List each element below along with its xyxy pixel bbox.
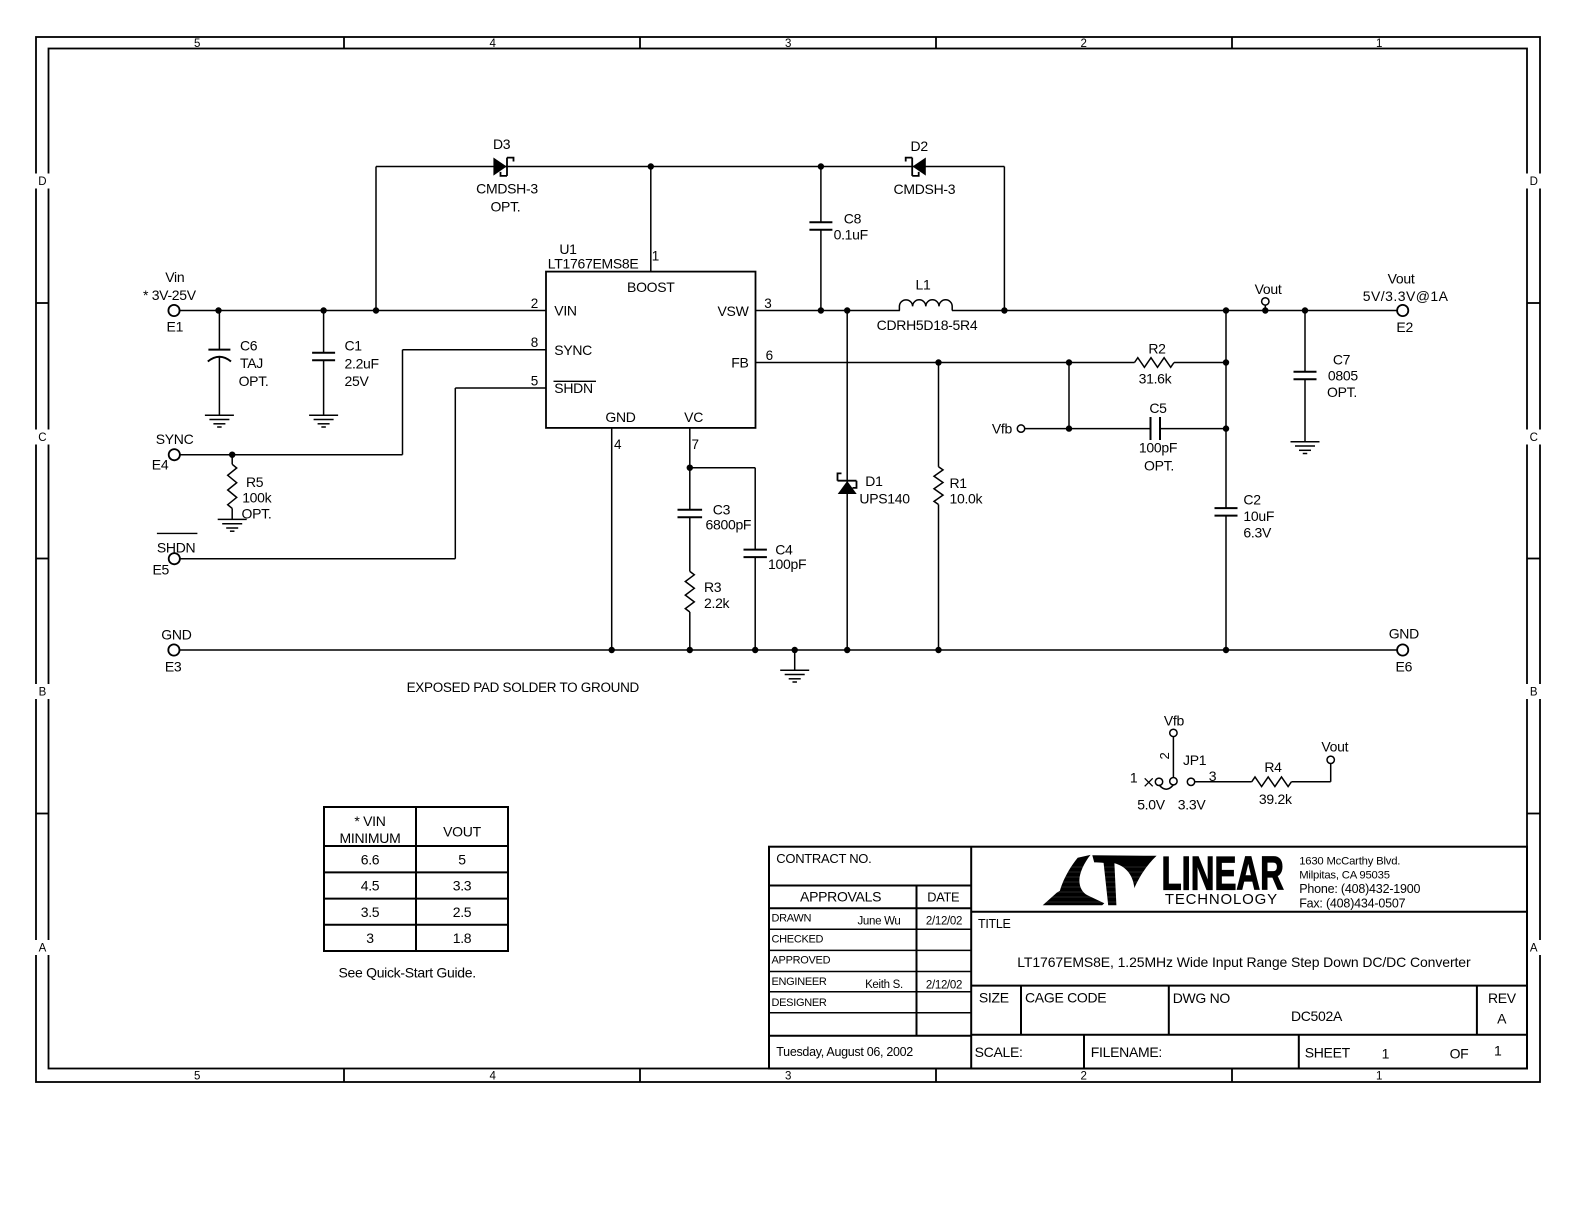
inductor L1 CDRH5D18-5R4 (877, 277, 978, 334)
svg-text:0.1uF: 0.1uF (834, 227, 868, 243)
svg-text:1: 1 (1494, 1043, 1502, 1059)
wire SYNC net E4 to U1 pin 8 (180, 350, 547, 455)
svg-text:APPROVED: APPROVED (772, 955, 831, 967)
svg-text:SHDN: SHDN (157, 540, 195, 556)
svg-text:C1: C1 (345, 338, 363, 354)
ground under C6 (205, 414, 234, 416)
svg-text:Fax: (408)434-0507: Fax: (408)434-0507 (1299, 897, 1405, 911)
junction dots VSW rail (818, 307, 1309, 313)
svg-text:2: 2 (531, 296, 538, 311)
svg-text:A: A (1530, 943, 1538, 955)
svg-text:Milpitas, CA 95035: Milpitas, CA 95035 (1299, 870, 1390, 882)
svg-text:5V/3.3V@1A: 5V/3.3V@1A (1363, 288, 1449, 304)
svg-text:4: 4 (614, 437, 622, 452)
svg-text:Vfb: Vfb (1164, 712, 1185, 728)
junction dots BOOST rail (648, 163, 825, 169)
svg-text:Vfb: Vfb (992, 421, 1013, 437)
svg-text:3.5: 3.5 (361, 904, 380, 920)
svg-text:CAGE CODE: CAGE CODE (1025, 989, 1106, 1005)
terminal E2 Vout (1363, 271, 1449, 336)
ground symbol on GND rail (780, 650, 809, 682)
capacitor C8 0.1uF (809, 211, 868, 243)
svg-text:VSW: VSW (718, 303, 750, 319)
svg-text:R2: R2 (1148, 340, 1166, 356)
wire Vout stub (1264, 305, 1266, 310)
wire FB rail U1 pin 6 (756, 362, 1227, 364)
terminal E3 GND (161, 627, 191, 675)
svg-text:E6: E6 (1396, 659, 1413, 675)
title text (978, 917, 1471, 970)
wire BOOST top rail (D3 anode to D2 cathode) (376, 166, 1004, 168)
svg-text:OPT.: OPT. (490, 198, 520, 214)
scale filename sheet row texts (975, 1043, 1502, 1062)
svg-text:C4: C4 (775, 542, 793, 558)
junction dots C5 rail (1066, 425, 1229, 431)
junction dots GND rail (609, 647, 1230, 653)
svg-text:MINIMUM: MINIMUM (340, 830, 401, 846)
svg-text:C5: C5 (1149, 400, 1167, 416)
svg-text:L1: L1 (916, 277, 931, 293)
svg-text:DC502A: DC502A (1291, 1008, 1343, 1024)
svg-text:* VIN: * VIN (354, 813, 385, 829)
svg-text:10uF: 10uF (1243, 508, 1274, 524)
svg-text:1: 1 (1376, 1071, 1382, 1083)
capacitor C2 10uF 6.3V (1215, 492, 1275, 541)
wire C6 vertical (218, 311, 220, 416)
svg-text:FILENAME:: FILENAME: (1091, 1044, 1162, 1060)
svg-text:C: C (1530, 432, 1538, 444)
svg-text:JP1: JP1 (1183, 752, 1207, 768)
svg-text:100pF: 100pF (1139, 439, 1177, 455)
wire D3 branch vertical (375, 167, 377, 311)
svg-text:Keith S.: Keith S. (865, 979, 903, 991)
title block frame (769, 847, 1527, 1069)
wire U1 pin 7 VC drop (689, 428, 691, 650)
svg-text:5: 5 (458, 852, 466, 868)
JP1 pin 3 circle (1187, 778, 1194, 785)
JP1 pin 1 circle (1155, 778, 1162, 785)
svg-text:D2: D2 (911, 138, 929, 154)
svg-text:0805: 0805 (1328, 367, 1358, 383)
svg-text:100pF: 100pF (768, 556, 806, 572)
svg-text:GND: GND (605, 409, 635, 425)
svg-text:D: D (1530, 176, 1538, 188)
junction dots Vin rail (215, 307, 379, 313)
svg-text:2: 2 (1157, 752, 1172, 759)
svg-text:TECHNOLOGY: TECHNOLOGY (1165, 891, 1278, 908)
svg-text:REV: REV (1488, 990, 1517, 1006)
svg-text:LT1767EMS8E, 1.25MHz Wide Inpu: LT1767EMS8E, 1.25MHz Wide Input Range St… (1017, 954, 1471, 970)
wire D1 vertical VSW to GND (846, 311, 848, 651)
svg-text:E5: E5 (153, 562, 170, 578)
wire SHDN net E5 to U1 pin 5 (180, 388, 547, 559)
ground under C7 (1291, 441, 1320, 443)
svg-text:R3: R3 (704, 579, 722, 595)
resistor R2 31.6k (1135, 340, 1175, 386)
capacitor C6 TAJ OPT (polarized) (208, 338, 269, 390)
wire R1 vertical FB to GND (938, 363, 940, 651)
svg-text:2: 2 (1081, 38, 1087, 50)
capacitor C5 100pF OPT (1139, 400, 1177, 474)
svg-text:Phone: (408)432-1900: Phone: (408)432-1900 (1299, 882, 1420, 896)
svg-text:2/12/02: 2/12/02 (926, 980, 962, 992)
svg-text:E1: E1 (167, 319, 184, 335)
svg-text:1: 1 (1376, 38, 1382, 50)
svg-text:1630 McCarthy Blvd.: 1630 McCarthy Blvd. (1299, 856, 1400, 868)
junction dots FB rail (935, 359, 1229, 365)
JP1 pin 2 circle (1170, 778, 1177, 785)
wire C1 vertical (323, 311, 325, 416)
table VIN MINIMUM vs VOUT (324, 807, 508, 951)
svg-text:C8: C8 (844, 211, 862, 227)
svg-text:OPT.: OPT. (1144, 458, 1174, 474)
op-amp U1 LT1767EMS8E regulator box (546, 241, 756, 428)
diode D3 CMDSH-3 OPT (schottky) (476, 136, 538, 214)
svg-text:3: 3 (785, 38, 791, 50)
svg-text:E3: E3 (165, 659, 182, 675)
svg-text:2.2uF: 2.2uF (345, 356, 379, 372)
svg-text:3: 3 (764, 296, 771, 311)
svg-text:Vin: Vin (165, 269, 184, 285)
svg-text:2/12/02: 2/12/02 (926, 916, 962, 928)
node Vfb above JP1 (1164, 712, 1185, 736)
svg-text:UPS140: UPS140 (859, 491, 910, 507)
wire D2 cathode drop to VSW rail (1003, 167, 1005, 311)
svg-text:5: 5 (194, 38, 200, 50)
svg-text:4.5: 4.5 (361, 878, 380, 894)
wire U1 pin 1 BOOST drop (650, 167, 652, 272)
terminal E4 SYNC (152, 431, 194, 473)
svg-text:6.6: 6.6 (361, 852, 380, 868)
svg-text:DRAWN: DRAWN (772, 913, 812, 925)
svg-text:3.3V: 3.3V (1178, 797, 1207, 813)
svg-text:GND: GND (161, 627, 191, 643)
ground under C1 (309, 414, 338, 416)
svg-text:A: A (39, 943, 47, 955)
svg-text:Vout: Vout (1321, 739, 1348, 755)
svg-text:SYNC: SYNC (156, 431, 194, 447)
svg-text:100k: 100k (242, 489, 272, 505)
svg-text:8: 8 (531, 335, 538, 350)
svg-text:D: D (38, 176, 46, 188)
capacitor C7 0805 OPT (1294, 352, 1359, 401)
svg-text:4: 4 (490, 1071, 497, 1083)
svg-text:39.2k: 39.2k (1259, 791, 1293, 807)
svg-text:SHEET: SHEET (1305, 1045, 1351, 1061)
svg-text:June Wu: June Wu (857, 916, 900, 928)
svg-text:6: 6 (766, 348, 773, 363)
jumper shunt arc between pins 1 and 2 (1159, 785, 1173, 789)
svg-text:10.0k: 10.0k (950, 491, 984, 507)
svg-text:2.2k: 2.2k (704, 595, 731, 611)
no-connect x mark on pin 1 (1145, 778, 1153, 786)
svg-text:BOOST: BOOST (627, 279, 675, 295)
svg-text:1: 1 (1130, 769, 1138, 785)
wire VSW rail L1 to E2 (952, 310, 1398, 312)
svg-text:4: 4 (490, 38, 497, 50)
wire C8 vertical (820, 167, 822, 311)
diode D2 CMDSH-3 (schottky) (894, 138, 956, 197)
logo Linear Technology (1042, 847, 1421, 911)
svg-text:TITLE: TITLE (978, 917, 1011, 931)
svg-text:B: B (39, 687, 47, 699)
terminal E6 GND (1389, 626, 1419, 675)
svg-text:1: 1 (652, 249, 659, 264)
svg-text:OPT.: OPT. (1327, 384, 1357, 400)
svg-text:SHDN: SHDN (554, 380, 592, 396)
svg-text:C: C (38, 432, 46, 444)
svg-text:5: 5 (531, 374, 538, 389)
svg-text:2: 2 (1081, 1071, 1087, 1083)
svg-text:OF: OF (1450, 1045, 1469, 1061)
svg-text:B: B (1530, 687, 1538, 699)
svg-text:2.5: 2.5 (453, 904, 472, 920)
svg-text:3.3: 3.3 (453, 878, 472, 894)
svg-text:OPT.: OPT. (239, 373, 269, 389)
wire Vfb link vertical (1068, 363, 1070, 429)
wire JP1 pin3 to R4 (1195, 781, 1252, 783)
svg-text:* 3V-25V: * 3V-25V (143, 287, 197, 303)
svg-text:ENGINEER: ENGINEER (772, 976, 827, 988)
wire R5 vertical (231, 455, 233, 520)
svg-text:1: 1 (1382, 1045, 1390, 1061)
svg-text:5.0V: 5.0V (1137, 797, 1166, 813)
svg-text:5: 5 (194, 1071, 200, 1083)
capacitor C1 2.2uF 25V (312, 338, 379, 390)
svg-text:D3: D3 (493, 136, 511, 152)
svg-text:C6: C6 (240, 338, 258, 354)
svg-text:DATE: DATE (927, 890, 959, 905)
wire JP1 pin2 vertical (1172, 737, 1174, 778)
diode D1 UPS140 (schottky, pointing up) (838, 473, 911, 507)
svg-text:Tuesday, August 06, 2002: Tuesday, August 06, 2002 (776, 1045, 913, 1059)
resistor R5 100k OPT (228, 464, 273, 521)
svg-text:CHECKED: CHECKED (772, 934, 824, 946)
svg-text:Vout: Vout (1255, 281, 1282, 297)
svg-text:CMDSH-3: CMDSH-3 (894, 181, 956, 197)
junction dot VC/C3/C4 node (687, 465, 693, 471)
svg-text:SIZE: SIZE (979, 989, 1009, 1005)
title block contract / approvals texts (772, 851, 963, 1059)
svg-text:VOUT: VOUT (443, 824, 481, 840)
svg-text:GND: GND (1389, 626, 1419, 642)
svg-text:VC: VC (684, 409, 703, 425)
svg-text:EXPOSED PAD SOLDER TO GROUND: EXPOSED PAD SOLDER TO GROUND (407, 680, 640, 695)
wire C7 vertical (1304, 311, 1306, 442)
svg-text:25V: 25V (345, 373, 370, 389)
resistor R1 10.0k (934, 467, 984, 507)
svg-text:6.3V: 6.3V (1243, 525, 1272, 541)
node Vout stub on VSW rail (1255, 281, 1282, 305)
svg-text:7: 7 (692, 437, 699, 452)
resistor R3 2.2k (685, 571, 730, 612)
wire R4 to Vout node (1291, 764, 1330, 782)
svg-text:DESIGNER: DESIGNER (772, 997, 827, 1009)
svg-text:APPROVALS: APPROVALS (800, 889, 881, 905)
svg-text:CMDSH-3: CMDSH-3 (476, 181, 538, 197)
svg-text:R5: R5 (246, 474, 264, 490)
wire GND rail E3 to E6 (179, 649, 1397, 651)
ground under R5 (218, 518, 247, 520)
svg-text:FB: FB (731, 355, 748, 371)
wire C5 rail from Vfb terminal (1025, 428, 1226, 430)
wire U1 pin 4 GND drop (611, 428, 613, 650)
svg-text:CDRH5D18-5R4: CDRH5D18-5R4 (877, 317, 978, 333)
svg-text:C3: C3 (713, 502, 731, 518)
svg-text:SCALE:: SCALE: (975, 1044, 1023, 1060)
svg-text:VIN: VIN (554, 303, 576, 319)
wire Vin rail E1 to U1 pin 2 (180, 310, 547, 312)
svg-text:E4: E4 (152, 457, 169, 473)
capacitor C3 6800pF (678, 502, 752, 533)
svg-text:E2: E2 (1396, 319, 1413, 335)
svg-text:R1: R1 (950, 475, 968, 491)
svg-text:SYNC: SYNC (554, 342, 592, 358)
node Vfb terminal (992, 421, 1025, 437)
terminal E1 Vin (143, 269, 197, 335)
svg-text:CONTRACT NO.: CONTRACT NO. (776, 851, 871, 866)
svg-text:D1: D1 (865, 473, 883, 489)
svg-text:31.6k: 31.6k (1139, 371, 1173, 387)
size cage dwg row texts (979, 989, 1517, 1026)
svg-text:R4: R4 (1264, 759, 1282, 775)
resistor R4 39.2k (1252, 759, 1293, 807)
svg-text:TAJ: TAJ (240, 355, 263, 371)
svg-text:C2: C2 (1243, 492, 1261, 508)
svg-text:3: 3 (785, 1071, 791, 1083)
junction dot SYNC/R5 (229, 452, 235, 458)
svg-text:DWG NO: DWG NO (1173, 990, 1231, 1006)
svg-text:LT1767EMS8E: LT1767EMS8E (548, 256, 639, 272)
svg-text:6800pF: 6800pF (706, 516, 752, 532)
terminal E5 SHDN (153, 533, 198, 577)
svg-text:Vout: Vout (1388, 271, 1415, 287)
node Vout at JP1 network (1321, 739, 1348, 764)
capacitor C4 100pF (744, 542, 807, 573)
wire VSW rail U1 pin 3 to L1 (756, 310, 900, 312)
svg-text:C7: C7 (1333, 352, 1351, 368)
svg-text:3: 3 (366, 930, 374, 946)
svg-text:See Quick-Start Guide.: See Quick-Start Guide. (339, 964, 476, 980)
svg-text:1.8: 1.8 (453, 930, 472, 946)
wire C4 branch (690, 468, 755, 650)
wire feedback divider vertical (R2/C5/C2 node) (1225, 311, 1227, 651)
svg-text:A: A (1497, 1011, 1507, 1027)
